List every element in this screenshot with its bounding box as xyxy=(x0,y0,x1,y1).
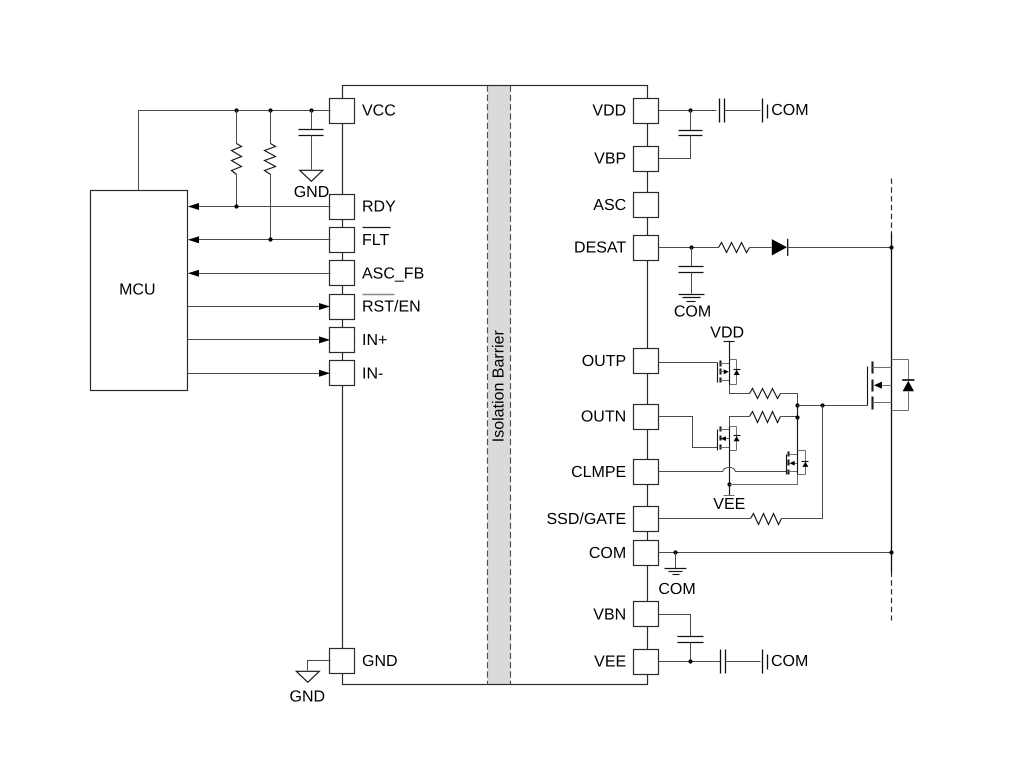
wire R-FLT to FLT line xyxy=(270,175,272,240)
node B (SSD/GATE tap) xyxy=(820,403,824,407)
capacitor C-VCC top plate xyxy=(299,129,324,131)
pin ASC_FB (square) xyxy=(330,261,355,286)
pin VCC (square) xyxy=(330,99,355,124)
wire Q1 source to resistor R-ON xyxy=(730,385,750,394)
isolation barrier right dashed edge xyxy=(510,86,512,685)
wire Q3 source to VEE junction xyxy=(730,475,798,485)
svg-text:COM: COM xyxy=(658,581,695,598)
wire GND pin to GND symbol xyxy=(308,661,331,671)
wire RDY to MCU xyxy=(199,206,331,208)
svg-text:RST/EN: RST/EN xyxy=(362,299,421,316)
node DESAT on drain rail xyxy=(889,245,893,249)
svg-text:ASC: ASC xyxy=(593,197,626,214)
wire C-VBN to VEE line xyxy=(690,643,692,662)
svg-text:VDD: VDD xyxy=(592,103,626,120)
resistor R-ON (gate turn-on) xyxy=(750,389,781,399)
pin COM (square) xyxy=(634,541,659,566)
arrowhead into RST/EN pin xyxy=(319,303,330,310)
wire C-VDD1 to C-VDD2 xyxy=(725,110,761,112)
node R-OFF junction xyxy=(795,415,799,419)
resistor R-FLT pull-up xyxy=(265,144,276,175)
svg-text:IN+: IN+ xyxy=(362,332,387,349)
wire gate node to power FET gate xyxy=(798,405,868,407)
wire SSD/GATE pin to resistor R-GATE xyxy=(659,518,751,520)
wire FLT to MCU xyxy=(199,239,331,241)
svg-text:VEE: VEE xyxy=(594,654,626,671)
svg-text:COM: COM xyxy=(771,102,808,119)
capacitor C-VBP top plate xyxy=(679,130,703,132)
wire gate node down to Q3 drain xyxy=(797,406,799,451)
wire C-VCC to GND symbol xyxy=(311,136,313,170)
svg-text:CLMPE: CLMPE xyxy=(571,464,626,481)
wire C-DESAT to COM ground xyxy=(691,273,693,294)
drain/source rail (solid) xyxy=(891,234,893,572)
pin CLMPE (square) xyxy=(634,460,659,485)
wire ASC_FB to MCU xyxy=(199,273,331,275)
capacitor C-VCC bottom plate xyxy=(299,135,324,137)
resistor R-RDY pull-up xyxy=(232,144,242,175)
wire D-DESAT to drain rail xyxy=(788,247,892,249)
capacitor C-VDD2 right plate xyxy=(767,105,769,119)
capacitor C-VBN bottom plate xyxy=(678,642,704,644)
body diode of Q2 xyxy=(730,426,737,428)
wire R-GATE to gate node xyxy=(782,406,823,519)
gate driver IC body outline xyxy=(343,86,648,685)
transistor Q4 (power MOSFET) gate bar xyxy=(867,367,869,406)
node A (gate drive node) xyxy=(795,403,799,407)
MCU block xyxy=(91,191,188,391)
svg-text:MCU: MCU xyxy=(119,282,155,299)
capacitor C-DESAT bottom plate xyxy=(679,272,704,274)
transistor Q4 stubs xyxy=(873,367,892,369)
svg-text:COM: COM xyxy=(589,545,626,562)
node on VCC rail at R-FLT xyxy=(268,108,272,112)
pin VBP (square) xyxy=(634,147,659,172)
wire C-VBP to VBP pin xyxy=(659,136,691,159)
capacitor C-DESAT top plate xyxy=(679,266,704,268)
overline for FLT label xyxy=(363,227,391,229)
svg-text:IN-: IN- xyxy=(362,365,383,382)
svg-text:VDD: VDD xyxy=(710,325,744,342)
pin RDY (square) xyxy=(330,195,355,220)
capacitor C-VEE2 left plate xyxy=(762,650,764,674)
wire CLMPE pin to Q3 gate with hop xyxy=(659,471,723,473)
wire VDD node down to C-VBP xyxy=(690,111,692,131)
wire COM tap to ground symbol xyxy=(675,553,677,569)
pin ASC (square) xyxy=(634,193,659,218)
wire MCU to IN- xyxy=(188,373,320,375)
capacitor C-VDD1 left plate xyxy=(719,99,721,123)
capacitor C-VDD1 right plate xyxy=(724,99,726,123)
wire VCC to resistor R-FLT xyxy=(270,111,272,144)
svg-text:RDY: RDY xyxy=(362,199,396,216)
svg-text:GND: GND xyxy=(294,184,330,201)
overline over RST in RST/EN label xyxy=(363,294,395,296)
capacitor C-VBP bottom plate xyxy=(679,135,703,137)
wire VCC to capacitor C-VCC xyxy=(311,111,313,130)
pin SSD/GATE (square) xyxy=(634,507,659,532)
VDD terminal bar for Q1 xyxy=(724,341,735,343)
wire R-DESAT to diode D-DESAT xyxy=(750,247,772,249)
node COM ground tap xyxy=(673,550,677,554)
VEE terminal bar xyxy=(724,495,735,497)
wire MCU to RST/EN xyxy=(188,306,320,308)
body diode of Q3 xyxy=(798,450,806,452)
capacitor C-VEE1 left plate xyxy=(720,650,722,674)
body diode of Q4 xyxy=(902,379,914,381)
arrowhead into MCU on FLT line xyxy=(188,236,199,243)
node on VCC rail at C-VCC xyxy=(309,108,313,112)
pin OUTP (square) xyxy=(634,349,659,374)
wire R-ON to gate node xyxy=(781,394,798,406)
diode D-DESAT (blanking diode) xyxy=(772,239,787,255)
capacitor C-VEE1 right plate xyxy=(725,650,727,674)
wire VEE pin to bypass network xyxy=(659,661,721,663)
node R-FLT on FLT line xyxy=(268,237,272,241)
capacitor C-VDD2 left plate xyxy=(762,99,764,123)
wire R-OFF to gate node xyxy=(781,416,798,418)
pin VEE (square) xyxy=(634,650,659,675)
svg-text:DESAT: DESAT xyxy=(574,240,626,257)
pin IN+ (square) xyxy=(330,328,355,353)
wire DESAT node to capacitor C-DESAT xyxy=(691,248,693,267)
COM ground symbol at C-DESAT xyxy=(679,294,705,296)
GND symbol (open triangle) at C-VCC xyxy=(300,170,323,181)
wire Q2 drain to resistor R-OFF xyxy=(730,417,750,427)
wire C-VEE1 to C-VEE2 xyxy=(726,661,761,663)
wire MCU to IN+ xyxy=(188,339,320,341)
body diode branch of Q4 xyxy=(892,359,909,361)
wire VDD terminal to Q1 drain xyxy=(729,342,731,360)
wire VDD pin to bypass network xyxy=(659,110,717,112)
node VEE junction xyxy=(727,482,731,486)
svg-text:COM: COM xyxy=(771,653,808,670)
svg-text:GND: GND xyxy=(362,653,398,670)
arrowhead into IN+ pin xyxy=(319,336,330,343)
arrowhead into MCU on RDY line xyxy=(188,203,199,210)
GND symbol (open triangle) at GND pin xyxy=(296,671,319,682)
svg-text:VBP: VBP xyxy=(594,151,626,168)
svg-text:VBN: VBN xyxy=(593,606,626,623)
wire DESAT pin to node xyxy=(659,247,719,249)
pin OUTN (square) xyxy=(634,405,659,430)
svg-text:GND: GND xyxy=(290,689,326,706)
wire R-RDY to RDY line xyxy=(236,175,238,207)
svg-text:OUTP: OUTP xyxy=(582,353,626,370)
arrowhead into MCU on ASC_FB line xyxy=(188,270,199,277)
wire VBN pin to C-VBN xyxy=(659,615,691,637)
isolation barrier left dashed edge xyxy=(487,86,489,685)
pin RST/EN (square) xyxy=(330,295,355,320)
pin IN- (square) xyxy=(330,361,355,386)
pin FLT (square) xyxy=(330,228,355,253)
node R-RDY on RDY line xyxy=(234,204,238,208)
transistor Q4 body arrow xyxy=(874,382,882,389)
drain rail dashed (top) xyxy=(891,179,893,234)
node on VCC rail at R-RDY xyxy=(234,108,238,112)
transistor Q1 (upper buffer MOSFET) xyxy=(717,363,719,383)
svg-text:OUTN: OUTN xyxy=(581,409,626,426)
svg-text:Isolation Barrier: Isolation Barrier xyxy=(491,330,508,443)
pin VBN (square) xyxy=(634,602,659,627)
resistor R-OFF (gate turn-off) xyxy=(750,412,781,423)
pin VDD (square) xyxy=(634,99,659,124)
pin DESAT (square) xyxy=(634,236,659,261)
svg-text:FLT: FLT xyxy=(362,232,389,249)
wire VCC rail to MCU xyxy=(139,111,331,191)
node DESAT xyxy=(689,245,693,249)
node VDD bypass xyxy=(688,108,692,112)
capacitor C-VEE2 right plate xyxy=(767,655,769,670)
isolation barrier band xyxy=(488,86,511,685)
wire OUTP pin to Q1 gate xyxy=(659,362,718,364)
transistor Q2 (lower buffer MOSFET) xyxy=(717,430,719,451)
svg-text:ASC_FB: ASC_FB xyxy=(362,265,424,282)
arrowhead into IN- pin xyxy=(319,370,330,377)
svg-text:VEE: VEE xyxy=(713,496,745,513)
wire VCC to resistor R-RDY xyxy=(236,111,238,144)
wire COM pin to source rail xyxy=(659,552,892,554)
capacitor C-VBN top plate xyxy=(678,636,704,638)
svg-text:SSD/GATE: SSD/GATE xyxy=(546,511,626,528)
transistor Q3 (clamp MOSFET) xyxy=(786,455,788,475)
body diode of Q1 xyxy=(730,359,737,361)
source rail dashed (bottom) xyxy=(891,572,893,621)
COM ground symbol at COM pin xyxy=(665,568,687,570)
svg-text:COM: COM xyxy=(674,304,711,321)
pin GND (square) xyxy=(330,649,355,674)
resistor R-DESAT xyxy=(719,243,750,253)
svg-text:VCC: VCC xyxy=(362,103,396,120)
wire Q2 source to VEE terminal xyxy=(729,451,731,496)
wire OUTN pin to Q2 gate xyxy=(659,417,718,448)
node COM on source rail xyxy=(889,550,893,554)
transistor Q4 channel xyxy=(871,362,873,374)
resistor R-GATE xyxy=(751,514,782,525)
node VEE bypass xyxy=(688,659,692,663)
